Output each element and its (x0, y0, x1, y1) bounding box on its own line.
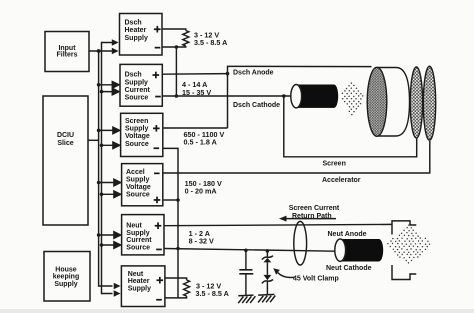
wire: resistor R1 to Dsch Heater - (162, 45, 186, 48)
discharge cathode end cap (291, 85, 302, 108)
arrow into Dsch Heater (bottom) (112, 48, 119, 55)
wire: Input Filters output (89, 50, 113, 52)
zener clamp D1 lead (266, 251, 268, 258)
wire: Dsch Heater + to resistor R1 (162, 29, 186, 31)
svg-text:Slice: Slice (57, 140, 73, 147)
block: Dsch Heater Supply U1 (120, 14, 163, 56)
terminal + of Neut Heater Supply (157, 277, 164, 284)
discharge chamber front face (anode) (367, 67, 387, 136)
block: DCIU Slice (43, 96, 88, 225)
wire: Dsch Supply - to discharge cathode (162, 95, 291, 97)
svg-text:0 - 20 mA: 0 - 20 mA (185, 186, 217, 195)
junction dot bus B at Neut Supply (100, 243, 104, 247)
terminal + of Dsch Heater Supply (154, 26, 161, 33)
svg-text:Dsch: Dsch (125, 72, 142, 79)
resistor R2 (neut heater) (184, 280, 190, 296)
svg-text:Source: Source (125, 95, 149, 102)
wire: DCIU output to bus (88, 139, 99, 141)
label 650 - 1100 V / 0.5 - 1.8 A (184, 130, 225, 147)
svg-text:keeping: keeping (53, 274, 79, 281)
label Screen Current Return Path (289, 205, 340, 220)
svg-text:Heater: Heater (128, 278, 150, 285)
wire: Neut Supply - to neut cathode (164, 249, 335, 252)
zener clamp D1 (45 volt clamp) (262, 256, 273, 284)
wire: Accel Supply + to common chain (163, 199, 178, 201)
label 4 - 14 A / 15 - 35 V (182, 80, 211, 97)
svg-text:Source: Source (125, 141, 149, 148)
arrow into Screen Supply (bottom) (102, 142, 120, 149)
arrow into Neut Heater (top, bus A end) (114, 283, 121, 290)
svg-text:Supply: Supply (125, 79, 148, 86)
svg-text:House: House (55, 266, 77, 273)
wire: Neut Supply + to keeper (Neut Anode rail) (164, 224, 392, 225)
junction dot bus A at Neut Supply (97, 233, 101, 237)
terminal + of Accel Supply (154, 197, 161, 204)
block: Dsch Supply Current Source U2 (120, 64, 162, 106)
label Neut Anode (328, 231, 367, 238)
junction dot heater return (175, 45, 179, 49)
arrow into Accel Supply (bottom) (102, 191, 121, 198)
block: Screen Supply Voltage Source U3 (121, 113, 163, 156)
terminal + of Screen Supply (153, 125, 160, 132)
label Input Filters (56, 45, 77, 59)
svg-text:Source: Source (126, 244, 150, 251)
label Dsch Anode (233, 70, 274, 77)
junction dot chain at neut - (176, 247, 180, 251)
bottom scan shadow (0, 309, 474, 313)
arrow into Dsch Supply (top) (99, 82, 120, 89)
junction dot bus A at Screen Supply (97, 129, 101, 133)
svg-text:Supply: Supply (125, 35, 148, 42)
label 45 Volt Clamp with arrow (293, 275, 339, 282)
wire: Accel Supply - accelerator rail (163, 141, 430, 173)
return path underline arrow (284, 218, 336, 220)
junction dot accel + (176, 198, 180, 202)
svg-text:Filters: Filters (56, 51, 77, 58)
junction dot clamp tap (266, 249, 270, 253)
discharge plasma plume dots (342, 82, 364, 115)
svg-text:Screen Current: Screen Current (289, 205, 340, 212)
terminal - of Dsch Supply (155, 96, 161, 98)
svg-text:Supply: Supply (126, 230, 149, 237)
svg-text:3.5 - 8.5 A: 3.5 - 8.5 A (194, 38, 227, 47)
terminal + of Neut Supply (155, 222, 162, 229)
svg-text:Accel: Accel (126, 169, 145, 176)
block: Neut Heater Supply U6 (121, 266, 164, 307)
block: Accel Supply Voltage Source U4 (122, 164, 163, 206)
label Dsch Heater Supply (125, 19, 148, 42)
terminal - of Neut Supply (156, 249, 162, 251)
junction dot bus B at Screen Supply (100, 144, 104, 148)
block: Neut Supply Current Source U5 (122, 215, 164, 255)
label 3 - 12 V / 3.5 - 8.5 A (dsch heater) (194, 31, 227, 48)
svg-text:Neut: Neut (126, 222, 142, 229)
terminal - of Neut Heater Supply (156, 299, 162, 301)
arrow into Dsch Supply (bottom) (102, 88, 120, 95)
svg-text:Dsch Cathode: Dsch Cathode (233, 102, 280, 109)
svg-text:Screen: Screen (125, 118, 148, 125)
accel grid (423, 66, 435, 140)
label Accelerator (322, 177, 361, 184)
label Dsch Cathode (233, 102, 280, 109)
svg-text:Neut Anode: Neut Anode (328, 231, 367, 238)
svg-text:Screen: Screen (323, 160, 346, 167)
arrow to clamp (278, 273, 295, 278)
return path loop ellipse (294, 221, 307, 265)
junction dot at heater tie (175, 94, 179, 98)
wire: screen grid return rail (284, 96, 417, 157)
svg-text:DCIU: DCIU (57, 132, 74, 139)
label House keeping Supply (53, 266, 79, 288)
junction dot bus B at Accel Supply (100, 193, 104, 197)
terminal - of Accel Supply (154, 173, 160, 175)
label 3 - 12 V / 3.5 - 8.5 A (neut heater) (196, 282, 229, 298)
neut cathode end cap (335, 239, 346, 261)
neut cathode cylinder body (335, 239, 383, 262)
arrow into Screen Supply (top) (99, 127, 120, 134)
arrow into Accel Supply (top) (99, 179, 121, 186)
discharge chamber body (377, 68, 410, 137)
label Screen Supply Voltage Source (125, 118, 150, 148)
svg-text:Supply: Supply (125, 126, 148, 133)
svg-text:Neut Cathode: Neut Cathode (326, 265, 372, 272)
svg-text:Source: Source (126, 192, 150, 199)
arrow into Neut Heater (bottom, bus B end) (114, 290, 121, 297)
svg-text:Current: Current (125, 87, 151, 94)
wire: bus B vertical (control bus) (102, 43, 113, 294)
resistor R1 (discharge heater) (183, 31, 189, 47)
neut keeper electrode (392, 221, 416, 280)
terminal - of Screen Supply (154, 147, 160, 149)
svg-text:8 - 32 V: 8 - 32 V (189, 236, 214, 245)
label 150 - 180 V / 0 - 20 mA (185, 179, 222, 195)
wire: anode riser and Dsch Anode rail (228, 66, 372, 128)
junction dot capacitor tap (244, 249, 248, 253)
block: House keeping Supply (44, 252, 90, 302)
label Neut Cathode (326, 265, 372, 272)
junction dot bus A at Dsch Supply (97, 83, 101, 87)
capacitor C1 lower lead (245, 274, 247, 295)
svg-text:Neut: Neut (128, 271, 144, 278)
capacitor C1 plates (239, 270, 253, 274)
svg-text:45 Volt Clamp: 45 Volt Clamp (293, 275, 339, 282)
wire: bus A vertical (power bus) (99, 51, 113, 286)
terminal - of Dsch Heater Supply (155, 47, 161, 49)
junction dot at filter output (97, 49, 101, 53)
label DCIU Slice (57, 132, 74, 147)
ground G2 (258, 294, 275, 302)
wire: heater return to cathode line (175, 47, 177, 96)
svg-text:0.5 - 1.8 A: 0.5 - 1.8 A (184, 137, 217, 146)
wire: Neut Heater + to resistor R2 (165, 278, 187, 280)
junction dot bus A at Accel Supply (97, 181, 101, 185)
terminal + of Dsch Supply (153, 72, 160, 79)
svg-text:Supply: Supply (126, 177, 149, 184)
capacitor C1 vertical lead (245, 250, 247, 269)
svg-text:Dsch: Dsch (125, 19, 142, 26)
label Accel Supply Voltage Source (126, 169, 151, 199)
label Neut Heater Supply (128, 271, 151, 293)
wire: Screen Supply + to anode riser (163, 127, 228, 129)
label Neut Supply Current Source (126, 222, 152, 251)
svg-text:Voltage: Voltage (126, 184, 151, 191)
arrow into Dsch Heater (top) (112, 39, 119, 46)
svg-text:Current: Current (126, 237, 152, 244)
block: Input Filters (45, 32, 89, 72)
screen grid (410, 67, 422, 138)
arrow into Neut Supply (top) (99, 232, 121, 239)
zener clamp lower lead (266, 281, 268, 295)
wire: Screen Supply - down the common chain (163, 148, 178, 298)
label Screen (323, 160, 346, 167)
junction dot dsch anode riser (226, 72, 230, 76)
svg-text:Accelerator: Accelerator (322, 177, 361, 184)
svg-text:Dsch Anode: Dsch Anode (233, 70, 274, 77)
arrow into Neut Supply (bottom) (102, 242, 121, 249)
svg-text:Supply: Supply (128, 286, 151, 293)
svg-text:Supply: Supply (54, 281, 77, 288)
svg-text:3.5 - 8.5 A: 3.5 - 8.5 A (196, 289, 229, 298)
svg-text:Voltage: Voltage (125, 133, 150, 140)
svg-text:Heater: Heater (125, 27, 147, 34)
discharge cathode cylinder body (291, 85, 338, 108)
junction dot at screen tie (282, 94, 286, 98)
wire: resistor R2 to Neut Heater - (165, 296, 187, 298)
junction dot bus B at Dsch Supply (100, 90, 104, 94)
neut plasma plume dots (387, 224, 430, 263)
wire: Dsch Supply + to anode riser (162, 73, 227, 76)
label Dsch Supply Current Source (125, 72, 151, 102)
ground G1 (238, 295, 255, 303)
label 1 - 2 A / 8 - 32 V (189, 229, 214, 245)
